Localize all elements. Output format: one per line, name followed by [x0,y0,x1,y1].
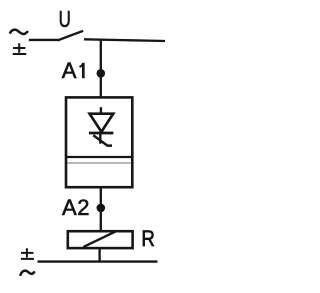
relay coil R box [68,231,133,248]
wire from supply to switch [29,39,58,41]
divider line 2 inside module [66,162,132,164]
suppressor symbol: gate stroke [93,135,112,145]
top wire to right [84,39,165,41]
wire: module bottom stub to A2 [100,188,102,208]
wire: A2 to relay coil [100,208,102,231]
module box [66,97,132,187]
wire: junction vertical from top wire to module [100,40,102,97]
bottom wire [38,260,158,262]
supply symbol bottom-left: tilde [20,271,34,276]
svg-text:A: A [62,58,77,83]
supply symbol bottom-left: plus-minus [21,248,34,259]
svg-text:U: U [59,6,71,32]
wire: coil bottom stub [98,248,100,261]
switch U blade [58,31,84,41]
AC/DC supply symbol top-left: tilde [10,30,28,34]
AC/DC supply symbol top-left: plus-minus [13,43,27,54]
node A1 dot [97,69,106,78]
suppressor symbol: cathode lead [99,134,101,144]
relay coil R slash [83,231,116,247]
svg-text:A: A [62,195,77,220]
svg-text:2: 2 [77,195,89,220]
divider line 1 inside module [66,156,132,158]
suppressor symbol: cathode bar [89,132,114,135]
suppressor symbol: top lead [100,107,102,113]
suppressor symbol: triangle [90,114,114,132]
svg-text:R: R [141,228,155,252]
node A2 dot [97,204,106,213]
